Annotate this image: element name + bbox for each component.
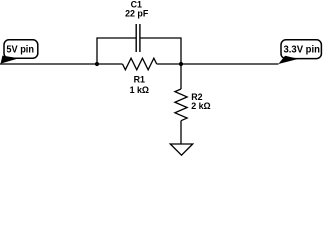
wire: R2 bottom lead bbox=[180, 121, 182, 144]
svg-text:1 kΩ: 1 kΩ bbox=[130, 85, 149, 95]
resistor R2 bbox=[175, 89, 187, 121]
ground bbox=[170, 144, 192, 155]
capacitor C1 bbox=[136, 24, 140, 52]
wire: R2 top lead bbox=[180, 64, 182, 89]
callout box 3.3V pin bbox=[281, 40, 321, 59]
svg-text:3.3V pin: 3.3V pin bbox=[284, 45, 320, 56]
callout pointer for 3.3V pin bbox=[278, 56, 298, 64]
resistor R1 bbox=[123, 58, 157, 70]
wire: between R1 and node B bbox=[157, 63, 181, 65]
wire: capacitor branch right riser bbox=[140, 38, 181, 64]
node A (junction dot left) bbox=[95, 62, 99, 66]
wire: 5V rail left segment bbox=[0, 63, 123, 65]
wire: 3.3V rail right segment bbox=[181, 63, 279, 65]
callout pointer for 5V pin bbox=[1, 56, 19, 64]
svg-text:2 kΩ: 2 kΩ bbox=[191, 101, 210, 111]
svg-text:R1: R1 bbox=[134, 75, 145, 85]
wire: capacitor branch left riser bbox=[97, 38, 136, 64]
svg-text:22 pF: 22 pF bbox=[125, 9, 149, 19]
svg-text:5V pin: 5V pin bbox=[6, 45, 34, 56]
node B (junction dot right) bbox=[179, 62, 183, 66]
callout box 5V pin bbox=[4, 40, 38, 58]
